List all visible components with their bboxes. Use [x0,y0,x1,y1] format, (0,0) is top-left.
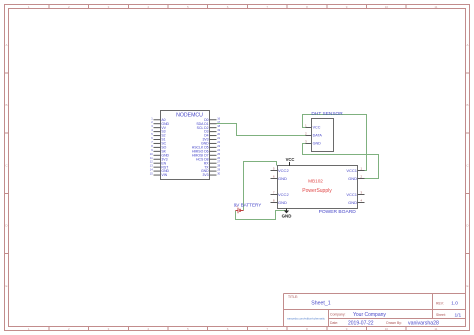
svg-text:9: 9 [151,148,153,152]
U1 pin 6 (S1) [151,136,165,142]
GND power flag [282,209,292,219]
svg-text:Date:: Date: [330,321,338,325]
svg-text:25: 25 [217,152,220,156]
svg-text:18: 18 [217,124,220,128]
U3 pin 6 (GND) [271,175,288,181]
U2 pin 2 (DATA) [305,132,322,138]
svg-text:D: D [5,224,8,228]
U1 pin 1 (A0) [151,116,165,122]
svg-text:16: 16 [217,116,220,120]
title block: Drawn By [386,321,439,327]
U3 name POWER BOARD [319,209,357,215]
U1 pin 12 (EN) [150,160,167,166]
U1 pin 10 (GND) [150,152,170,158]
svg-text:10: 10 [385,5,389,9]
svg-text:VCC2: VCC2 [278,168,289,173]
U1 pin 16 (D0) [204,116,221,122]
svg-text:24: 24 [217,148,220,152]
svg-text:4: 4 [360,199,362,203]
svg-text:C: C [466,163,469,167]
svg-text:6: 6 [151,136,153,140]
svg-text:D: D [466,224,469,228]
U1 pin 27 (RX) [204,160,221,166]
svg-text:REV:: REV: [436,301,444,305]
U1 pin 7 (SC) [151,140,166,146]
svg-text:21: 21 [217,136,220,140]
svg-text:7: 7 [151,140,153,144]
svg-text:9V BATTERY: 9V BATTERY [234,202,262,207]
U1 pin 13 (RST) [150,164,169,170]
title block: Company [330,312,386,318]
U1 pin 19 (D3) [204,128,221,134]
svg-text:3: 3 [151,124,153,128]
svg-text:13: 13 [150,164,153,168]
U3 pin 7 (VCC2) [271,191,290,197]
svg-text:easyeda.com/editor/schematic: easyeda.com/editor/schematic [287,316,325,320]
svg-text:1: 1 [151,116,153,120]
svg-text:7: 7 [273,191,275,195]
svg-text:11: 11 [434,327,437,331]
svg-text:19: 19 [217,128,220,132]
VCC power flag [286,157,295,166]
svg-text:5: 5 [273,167,275,171]
svg-text:11: 11 [150,156,153,160]
svg-text:5: 5 [151,132,153,136]
svg-text:VIN: VIN [161,173,167,177]
svg-text:Sheet:: Sheet: [436,313,446,317]
U3 pin 3 (VCC1) [346,191,364,197]
svg-text:1: 1 [360,167,362,171]
svg-text:23: 23 [217,144,220,148]
svg-text:B: B [466,103,468,107]
svg-text:3V3: 3V3 [202,173,208,177]
wire: U1 SDA D1 to U2 DATA [217,124,306,136]
svg-text:2019-07-22: 2019-07-22 [348,321,374,327]
U2 pin 3 (GND) [305,140,321,146]
svg-text:PowerSupply: PowerSupply [302,188,332,194]
svg-text:20: 20 [217,132,220,136]
U1 pin 26 (HCS D8) [196,156,221,162]
svg-text:14: 14 [150,168,153,172]
battery BT1 symbol [236,205,244,213]
svg-text:Company:: Company: [330,312,346,316]
svg-text:11: 11 [434,5,437,9]
power board module U3 (MB102) [278,166,358,209]
svg-text:GND: GND [348,176,357,181]
U1 pin 30 (3V3) [202,172,220,178]
svg-text:C: C [5,163,8,167]
wire: battery plus to U3 VCC2 pin 5 [244,162,277,211]
U1 pin 20 (D4) [204,132,221,138]
svg-text:1: 1 [305,124,307,128]
svg-text:1/1: 1/1 [455,312,462,318]
U1 pin 11 (3V3) [150,156,168,162]
U2 pin 1 (VCC) [305,124,321,130]
title block: easyeda url [287,316,325,320]
svg-text:2: 2 [305,132,307,136]
svg-text:8: 8 [151,144,153,148]
svg-text:VCC1: VCC1 [346,168,357,173]
U1 pin 5 (S2) [151,132,165,138]
svg-text:NODEMCU: NODEMCU [176,112,203,118]
svg-text:2: 2 [151,120,153,124]
svg-text:A: A [5,43,7,47]
U1 pin 2 (GND) [151,120,169,126]
title block frame [284,294,466,327]
svg-text:12: 12 [150,160,153,164]
svg-text:E: E [466,284,468,288]
svg-text:15: 15 [150,172,153,176]
U3 pin 5 (VCC2) [271,167,290,173]
U1 pin 4 (S3) [151,128,165,134]
svg-text:B: B [5,103,7,107]
svg-text:26: 26 [217,156,220,160]
svg-text:VCC: VCC [286,157,295,162]
svg-text:VCC1: VCC1 [346,192,357,197]
svg-text:3: 3 [360,191,362,195]
wire: U2 GND to U3 GND pin 2 [303,144,379,179]
svg-text:vanivarsha28: vanivarsha28 [408,321,439,327]
svg-text:GND: GND [348,200,357,205]
U3 pin 8 (GND) [271,199,288,205]
dht sensor U2 [312,119,334,152]
title block: Sheet 1/1 [436,312,462,318]
svg-text:VCC2: VCC2 [278,192,289,197]
U1 pin 15 (VIN) [150,172,168,178]
svg-text:6: 6 [273,175,275,179]
wire: U2 VCC to U3 VCC1 pin 1 [303,115,367,171]
title block: REV 1.0 [436,301,458,307]
U1 pin 24 (HMISO D6) [192,148,221,154]
svg-text:10: 10 [385,327,389,331]
svg-text:TITLE:: TITLE: [288,295,298,299]
svg-text:4: 4 [151,128,153,132]
U1 pin 18 (SCL D2) [197,124,221,130]
svg-text:22: 22 [217,140,220,144]
svg-text:30: 30 [217,172,220,176]
svg-text:E: E [5,284,7,288]
svg-text:POWER BOARD: POWER BOARD [319,209,357,215]
svg-text:GND: GND [313,142,322,146]
U1 pin 3 (VV) [151,124,166,130]
U1 pin 29 (GND) [201,168,221,174]
battery BT1 label 9V BATTERY [234,202,262,207]
svg-text:A: A [466,43,468,47]
nodemcu module U1 [161,111,210,180]
svg-text:17: 17 [217,120,220,124]
svg-text:8: 8 [273,199,275,203]
U1 pin 23 (HSCLK D5) [192,144,221,150]
svg-text:GND: GND [278,176,287,181]
svg-text:DHT SENSOR: DHT SENSOR [311,111,343,117]
U1 pin 8 (SO) [151,144,166,150]
U1 pin 25 (HMOSI D7) [192,152,221,158]
svg-text:Sheet_1: Sheet_1 [311,300,330,306]
title block: TITLE Sheet_1 [288,295,331,307]
svg-text:27: 27 [217,160,220,164]
U1 pin 28 (TX) [204,164,221,170]
svg-text:3: 3 [305,140,307,144]
U3 pin 1 (VCC1) [346,167,364,173]
svg-text:GND: GND [282,213,292,218]
svg-text:29: 29 [217,168,220,172]
svg-text:VCC: VCC [313,126,321,130]
U1 name NODEMCU [176,112,203,118]
svg-text:10: 10 [150,152,153,156]
title block: Date [330,321,374,327]
U1 pin 21 (3V3) [202,136,220,142]
wire: battery minus to GND flag [236,211,287,220]
U3 pin 4 (GND) [348,199,364,205]
U1 pin 9 (SK) [151,148,166,154]
U1 pin 22 (GND) [201,140,221,146]
svg-text:MB102: MB102 [308,179,323,184]
svg-text:DATA: DATA [313,134,323,138]
U2 name DHT SENSOR [311,111,343,117]
U1 pin 17 (SDA D1) [196,120,220,126]
U3 value MB102 PowerSupply [302,179,332,194]
svg-text:2: 2 [360,175,362,179]
U1 pin 14 (GND) [150,168,170,174]
svg-text:Your Company: Your Company [353,312,386,318]
svg-text:Drawn By:: Drawn By: [386,321,402,325]
svg-text:1.0: 1.0 [451,301,458,307]
svg-text:GND: GND [278,200,287,205]
svg-text:28: 28 [217,164,220,168]
U3 pin 2 (GND) [348,175,364,181]
